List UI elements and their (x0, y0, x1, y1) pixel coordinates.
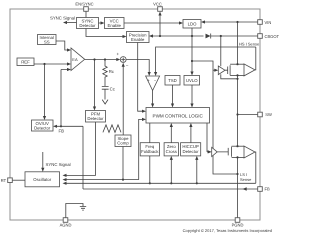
label: LS I Sense (240, 172, 252, 182)
capacitor Cc (102, 86, 116, 99)
pin FB (258, 186, 270, 191)
wire: Zero Cross bottom from sense line (170, 156, 173, 185)
wire: EA output to summing node (85, 58, 120, 61)
wire: summing to PWM comparator (126, 60, 150, 77)
wire: comparator to PWM logic (151, 91, 154, 108)
wire: slope comp bottom to oscillator line (122, 147, 124, 181)
box: Freq Foldback (140, 143, 159, 156)
svg-text:EN/SYNC: EN/SYNC (75, 1, 93, 6)
svg-text:Detector: Detector (34, 126, 51, 131)
svg-text:Rc: Rc (109, 69, 115, 74)
pin CBOOT (258, 34, 280, 39)
svg-text:Comp: Comp (117, 141, 129, 146)
svg-text:TSD: TSD (168, 78, 177, 83)
wire: diode to CBOOT pin (211, 35, 258, 37)
svg-text:Cc: Cc (110, 86, 116, 91)
wire: LS I sense line to oscillator (line 3) (63, 182, 256, 185)
wire: HICCUP bottom from sense line (195, 156, 198, 185)
wire: SYNC signal into oscillator top (41, 152, 44, 172)
wire: FB pin line (83, 187, 258, 190)
wire: oscillator ramp line (line 2) (63, 178, 139, 181)
box: SYNC Detector (77, 18, 99, 29)
wire: TSD to PWM logic (171, 85, 174, 108)
svg-text:Sense: Sense (240, 177, 252, 182)
svg-text:Detector: Detector (87, 116, 104, 121)
wire: LS source down to PGND (237, 157, 239, 217)
box: Zero Cross (164, 143, 178, 156)
svg-text:SYNC Signal: SYNC Signal (50, 16, 75, 21)
wire: LS sense output down to sense line (254, 152, 257, 183)
LS current sense amp (244, 146, 255, 158)
wire: Precision Enable down to PWM logic (138, 43, 146, 113)
box: Internal SS (38, 35, 57, 45)
wire: EN/SYNC pin to SYNC Detector (85, 12, 87, 18)
box: REF (17, 58, 34, 66)
wire: VIN drop to HS FET drain (237, 22, 239, 64)
HS gate driver U-hs (218, 66, 225, 75)
svg-text:Detector: Detector (182, 149, 199, 154)
svg-text:LDO: LDO (188, 22, 197, 27)
wire: REF to EA plus input (34, 62, 71, 65)
svg-text:RT: RT (1, 178, 7, 183)
wire: VCC pin drop with up arrow (158, 12, 161, 38)
wire: LS drain stub (232, 115, 244, 148)
wire: VCC Enable to LDO enable input (124, 21, 183, 24)
wire: VIN pin to LDO input (201, 20, 258, 23)
wire: UVLO to PWM logic (190, 85, 193, 108)
svg-text:CBOOT: CBOOT (265, 34, 280, 39)
wire: HS source sense stub (230, 74, 244, 76)
wire: Freq Foldback bottom to sense line (149, 156, 151, 185)
pin EN/SYNC (75, 1, 93, 11)
comparator (PWM) (146, 76, 160, 91)
wire: driver supply line from VCC node (192, 61, 239, 175)
wire: RT pin to oscillator (12, 179, 25, 181)
svg-text:VIN: VIN (265, 20, 272, 25)
svg-text:SW: SW (265, 112, 272, 117)
svg-text:Foldback: Foldback (141, 149, 159, 154)
svg-text:Oscillator: Oscillator (33, 177, 51, 182)
box: LDO (183, 20, 201, 29)
svg-text:+: + (117, 52, 120, 57)
wire: AGND stub and ground (66, 204, 86, 218)
box: HICCUP Detector (181, 143, 201, 156)
wire: FB net horizontal into OV/UV (53, 125, 83, 128)
wire: HS sense output up and left (254, 47, 257, 70)
wire: SYNC Detector to Precision Enable (86, 29, 127, 39)
LS gate driver U-ls (212, 147, 218, 156)
svg-text:PWM CONTROL LOGIC: PWM CONTROL LOGIC (153, 113, 204, 118)
wire: oscillator line up to PWM logic (139, 118, 146, 180)
svg-text:FB: FB (265, 186, 271, 191)
svg-text:PGND: PGND (232, 223, 244, 228)
wire: HS drain sense stub (230, 63, 244, 65)
pin VCC (153, 1, 162, 11)
pin AGND (60, 218, 72, 228)
wire: HICCUP up to PWM logic (189, 123, 192, 143)
oscillator box (25, 172, 60, 187)
box: Precision Enable (127, 32, 150, 43)
resistor Rc (103, 60, 115, 87)
box: UVLO (184, 76, 200, 86)
wire: CBOOT boot drop to HS driver (220, 36, 222, 66)
box: PWM CONTROL LOGIC (146, 108, 210, 124)
wire: FB net drop to FB line (82, 126, 84, 189)
pin PGND (232, 218, 244, 228)
svg-text:SYNC Signal: SYNC Signal (46, 162, 71, 167)
svg-text:Copyright © 2017, Texas Instru: Copyright © 2017, Texas Instruments Inco… (183, 228, 272, 233)
svg-text:UVLO: UVLO (186, 78, 198, 83)
wire: PWM logic to Freq Foldback (149, 123, 151, 143)
box: OV/UV Detector (32, 120, 54, 131)
wire: HS I sense line to comparator (154, 47, 256, 76)
wire: REF node down to OV/UV detector (43, 64, 46, 120)
wire: PFM detector to oscillator (line 1) (63, 122, 96, 177)
pin RT (1, 178, 12, 183)
HS current sense amp (244, 64, 255, 76)
svg-text:Enable: Enable (131, 37, 145, 42)
ground (comp network) (102, 100, 108, 104)
HS MOSFET Q1 (225, 65, 230, 75)
box: TSD (165, 76, 180, 86)
box: VCC Enable (105, 18, 125, 29)
pin SW (258, 112, 272, 117)
svg-text:Detector: Detector (79, 23, 96, 28)
svg-text:−: − (126, 63, 129, 68)
LS MOSFET Q2 (217, 147, 231, 157)
wire: HS source down to SW (236, 75, 238, 115)
op-amp EA (71, 48, 85, 71)
box: Slope Comp (115, 135, 131, 147)
svg-text:Enable: Enable (108, 23, 122, 28)
wire: VCC rail to Precision Enable (149, 34, 204, 37)
svg-text:AGND: AGND (60, 223, 72, 228)
wire: LDO output drop to UVLO (190, 28, 193, 76)
IC boundary frame (10, 9, 260, 220)
wire: Zero Cross up to PWM logic (170, 123, 173, 143)
summing junction (117, 52, 129, 68)
box: PFM Detector (86, 111, 106, 123)
wire: EA node down to PFM Detector (93, 60, 96, 111)
svg-text:FB: FB (59, 128, 65, 133)
pin VIN (258, 20, 272, 25)
svg-text:Cross: Cross (166, 149, 177, 154)
wire: Internal SS to EA (56, 41, 71, 52)
svg-text:EA: EA (72, 57, 78, 62)
svg-text:VCC: VCC (153, 1, 162, 6)
wire: PWM logic down to LS driver and sense line (206, 123, 208, 152)
svg-text:SS: SS (44, 40, 50, 45)
wire: slope comp up to summing (122, 63, 125, 135)
wire: SYNC Signal output arrow (left) (63, 21, 77, 24)
wire: HS driver return (221, 74, 239, 80)
diode on VCC rail (206, 34, 211, 39)
wire: SW pin line (238, 114, 258, 116)
svg-text:HS I Sense: HS I Sense (239, 42, 260, 47)
wire: LS driver input stub (207, 150, 212, 153)
sawtooth waveform (103, 125, 121, 133)
wire: FB to EA minus input (60, 68, 71, 128)
svg-text:REF: REF (21, 59, 30, 64)
wire: HS driver input stub (213, 69, 218, 72)
wire: SYNC Detector to VCC Enable (99, 21, 105, 24)
wire: LS source sense stub (232, 156, 244, 158)
